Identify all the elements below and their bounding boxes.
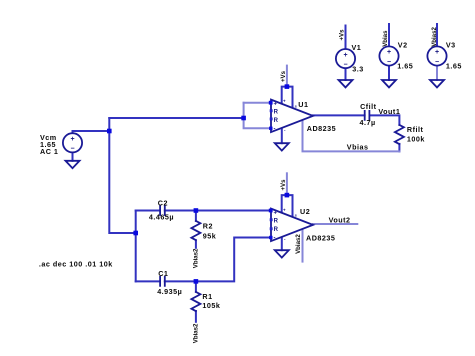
svg-text:+Vs: +Vs [280,70,287,82]
svg-text:AD8235: AD8235 [307,124,336,133]
svg-text:+: + [343,52,347,59]
svg-text:−: − [387,59,391,66]
svg-text:-: - [274,127,276,133]
svg-text:Vbias2: Vbias2 [192,248,199,268]
svg-text:C2: C2 [158,199,168,208]
svg-text:+Vs: +Vs [280,179,287,191]
svg-text:−: − [343,61,347,68]
svg-text:R: R [274,118,279,124]
svg-text:4.7µ: 4.7µ [360,118,376,127]
svg-text:4.935µ: 4.935µ [157,287,182,296]
svg-text:3.3: 3.3 [352,65,364,74]
svg-text:Vout2: Vout2 [329,216,351,225]
svg-text:+: + [283,207,286,212]
svg-text:R1: R1 [202,292,212,301]
svg-text:Vbias: Vbias [347,143,369,152]
svg-text:Rfilt: Rfilt [407,125,424,134]
svg-text:Vbias2: Vbias2 [192,323,199,343]
svg-text:+: + [387,49,391,56]
svg-text:4.465µ: 4.465µ [149,213,174,222]
svg-text:+: + [274,101,278,107]
svg-text:AD8235: AD8235 [306,234,335,243]
svg-text:1.65: 1.65 [446,62,462,71]
svg-text:V1: V1 [352,43,362,52]
svg-text:-: - [274,236,276,242]
svg-text:V3: V3 [446,41,456,50]
svg-text:95k: 95k [203,232,217,241]
svg-text:Vbias2: Vbias2 [431,27,438,47]
svg-text:R2: R2 [203,222,213,231]
svg-text:R: R [274,110,279,116]
svg-text:AC 1: AC 1 [40,147,58,156]
svg-text:Cfilt: Cfilt [360,102,377,111]
svg-text:R: R [274,219,279,225]
svg-text:+: + [274,210,278,216]
svg-text:−: − [70,146,74,153]
svg-text:R: R [274,227,279,233]
svg-text:Vout1: Vout1 [378,107,400,116]
svg-text:+: + [435,49,439,56]
svg-text:−: − [435,59,439,66]
svg-text:U1: U1 [298,100,308,109]
svg-text:.ac dec 100 .01 10k: .ac dec 100 .01 10k [39,259,113,268]
svg-text:100k: 100k [407,135,425,144]
svg-text:Vbias2: Vbias2 [295,234,302,254]
svg-text:+Vs: +Vs [339,29,346,41]
svg-text:+: + [70,136,74,143]
svg-text:Vbias: Vbias [382,30,389,47]
svg-text:U2: U2 [300,207,310,216]
svg-text:105k: 105k [202,301,220,310]
svg-text:V2: V2 [398,41,408,50]
svg-text:C1: C1 [158,269,168,278]
svg-text:1.65: 1.65 [397,62,413,71]
svg-text:+: + [283,99,286,104]
